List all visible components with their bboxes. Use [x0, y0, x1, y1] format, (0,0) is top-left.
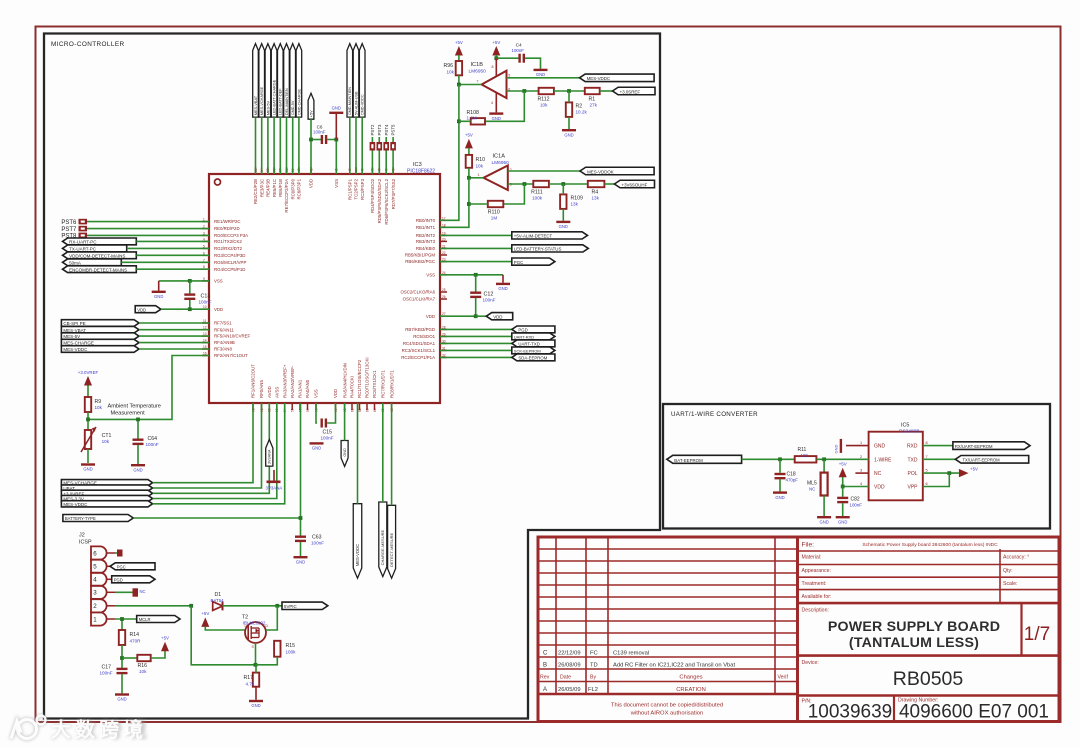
- net flag TX-UART-PC (left): [63, 245, 127, 252]
- svg-text:5: 5: [508, 73, 510, 77]
- wire TX-UART-PC to IC3: [127, 247, 209, 249]
- wire feedback down: [485, 91, 524, 121]
- supply bar 3V3ANA: [266, 470, 283, 491]
- svg-text:Changes: Changes: [679, 675, 702, 681]
- svg-text:RE1/WR/P2C: RE1/WR/P2C: [214, 219, 241, 224]
- svg-text:RB0/INT0: RB0/INT0: [416, 218, 436, 223]
- svg-text:PGD: PGD: [114, 578, 123, 583]
- wire PST5 to IC3: [392, 151, 394, 175]
- svg-text:IC1A: IC1A: [493, 154, 506, 160]
- net flag UBAT (lower left): [61, 485, 152, 491]
- svg-text:+3.0SREF: +3.0SREF: [620, 89, 641, 94]
- svg-text:RXD: RXD: [907, 444, 918, 450]
- IC5 pin labels: [860, 441, 928, 490]
- junction C18: [778, 457, 782, 461]
- wire MES-3.3V to IC3 pin: [153, 403, 277, 499]
- op-amp IC3 body (PIC18F8622): [209, 174, 440, 403]
- svg-text:VDD: VDD: [309, 179, 314, 188]
- net flag MES-VCHARGE (top, vertical): [259, 44, 265, 118]
- ground below C63: [294, 556, 308, 564]
- IC3 value label: [407, 169, 435, 175]
- net flag CHARGE-MESURE (long vertical): [379, 502, 387, 577]
- IC1B value label: [469, 69, 487, 75]
- ground at IC3 right VSS: [496, 275, 510, 291]
- junction C64: [136, 418, 140, 422]
- wire C4 to gnd: [525, 58, 541, 68]
- net flag 5V-ALIM-USB (top, vertical): [353, 44, 359, 118]
- wire C18 to gnd: [779, 479, 781, 491]
- label Ambient Temperature Measurement: [108, 404, 161, 417]
- jumper PST6: [79, 219, 88, 225]
- IC1B name label: [471, 62, 484, 68]
- wire R109 stem: [562, 184, 564, 194]
- svg-text:10k: 10k: [476, 164, 484, 169]
- wire C12 stem lower: [440, 298, 476, 316]
- R16 value label: [139, 669, 147, 674]
- svg-text:POWER SUPPLY BOARD: POWER SUPPLY BOARD: [828, 619, 1000, 635]
- net flag UART-RXD (right stack): [512, 333, 555, 340]
- wire C12 stem upper: [475, 275, 477, 292]
- ground below R109: [556, 221, 570, 229]
- svg-text:DS2480B: DS2480B: [899, 428, 920, 434]
- IC1B gnd stem: [491, 93, 496, 113]
- wire C82 stem: [842, 487, 844, 497]
- svg-text:R96: R96: [444, 63, 454, 69]
- svg-text:RC8/RX1/DT1: RC8/RX1/DT1: [389, 370, 394, 398]
- svg-text:GND: GND: [312, 446, 321, 451]
- svg-text:MES-VCHARGE: MES-VCHARGE: [260, 86, 264, 115]
- wire R110 left: [469, 203, 488, 205]
- junction VDD/C13: [188, 307, 192, 311]
- svg-text:10039639: 10039639: [808, 702, 893, 723]
- wire MES-VDDC to IC3: [139, 348, 209, 350]
- svg-text:RB2/INT2: RB2/INT2: [416, 233, 436, 238]
- resistor R108: [471, 118, 485, 124]
- net flag GND small (below IC3): [341, 441, 348, 467]
- R108 value label: [467, 115, 477, 120]
- resistor R2: [566, 102, 572, 117]
- net flag CMD-5V (top, vertical): [290, 44, 296, 118]
- R2 name label: [576, 104, 583, 110]
- svg-text:Appearance:: Appearance:: [802, 568, 831, 574]
- uart/1-wire converter box: [663, 404, 1050, 529]
- micro-controller box label: [51, 41, 125, 48]
- R108 name label: [467, 110, 480, 116]
- wire gate: [205, 626, 245, 630]
- wire IC5 RXD: [923, 445, 953, 447]
- svg-text:C139 removal: C139 removal: [613, 651, 649, 657]
- svg-text:RF0/AN5: RF0/AN5: [259, 380, 264, 398]
- svg-text:RD4/PSP4/SDO2: RD4/PSP4/SDO2: [370, 178, 375, 213]
- wire +5V to R10: [468, 148, 470, 155]
- svg-text:D: D: [266, 624, 269, 628]
- svg-text:ENCOMBR-DETECT-MAINS: ENCOMBR-DETECT-MAINS: [69, 267, 127, 272]
- svg-text:R14: R14: [130, 632, 140, 638]
- svg-text:VDD: VDD: [137, 307, 146, 312]
- R10 value label: [476, 164, 484, 169]
- svg-text:AVDD: AVDD: [267, 386, 272, 398]
- net flag MES-3.3V (lower left): [61, 495, 152, 501]
- svg-text:S: S: [252, 645, 255, 649]
- svg-text:RC5/SDO1: RC5/SDO1: [413, 334, 435, 339]
- ML5 name label: [807, 481, 817, 487]
- svg-text:BAT-EEPROM: BAT-EEPROM: [674, 458, 703, 463]
- C17 name label: [102, 665, 112, 671]
- wire RF2 to temperature node: [88, 356, 209, 420]
- svg-text:Schematic Power Supply board 3: Schematic Power Supply board 3842600 (ta…: [862, 542, 998, 548]
- wire IC5 VPP: [923, 473, 950, 486]
- svg-text:RC1/T1OSI/ECCP2: RC1/T1OSI/ECCP2: [357, 359, 362, 398]
- svg-text:MES-VDDC: MES-VDDC: [63, 502, 88, 507]
- T2 pin marks: [245, 624, 269, 649]
- svg-text:RD7/PSP7/SS2: RD7/PSP7/SS2: [391, 178, 396, 209]
- C63 name label: [312, 535, 322, 541]
- svg-text:VDD/COM-DETECT-MAINS: VDD/COM-DETECT-MAINS: [69, 253, 125, 258]
- svg-text:+5V: +5V: [970, 467, 978, 472]
- wire R111 to R4: [549, 183, 588, 185]
- wire R1 to flag: [600, 90, 613, 92]
- C82 value label: [850, 503, 863, 508]
- svg-text:100: 100: [801, 453, 809, 458]
- wire R16 left: [122, 657, 137, 659]
- svg-text:Verif: Verif: [778, 675, 789, 681]
- net flag 3V3ANA (vertical): [266, 440, 273, 467]
- svg-text:GND: GND: [343, 448, 347, 457]
- svg-text:SDA-EEPROM: SDA-EEPROM: [518, 356, 547, 361]
- svg-text:100nF: 100nF: [199, 300, 212, 305]
- revision table entries: [540, 651, 788, 694]
- svg-text:10.2k: 10.2k: [576, 110, 588, 115]
- R109 name label: [571, 196, 584, 202]
- svg-text:5VPIC: 5VPIC: [284, 604, 297, 609]
- net flag MES-VDDC (lower left): [61, 501, 152, 507]
- svg-text:3V3ANA: 3V3ANA: [268, 449, 272, 464]
- net flag SDA-EEPROM (right stack): [512, 354, 555, 361]
- net flag VDD/COM-DETECT-MAINS (left): [63, 252, 137, 259]
- svg-text:4: 4: [860, 482, 862, 486]
- R14 value label: [130, 639, 142, 644]
- svg-text:PIC18F8622: PIC18F8622: [407, 169, 435, 175]
- svg-text:NC: NC: [809, 487, 815, 492]
- wire BAT-EEPROM to R11: [742, 458, 795, 460]
- copy disclaimer: [611, 703, 723, 717]
- IC5 pin1 stub: [846, 445, 869, 447]
- jumper PST2: [370, 142, 376, 151]
- R16 name label: [138, 663, 148, 669]
- junction R110 left: [467, 202, 471, 206]
- svg-text:100nF: 100nF: [512, 48, 525, 53]
- svg-text:+5V: +5V: [839, 462, 847, 467]
- CT1 value label: [102, 439, 110, 444]
- svg-text:100nF: 100nF: [850, 503, 863, 508]
- svg-text:R15: R15: [286, 643, 296, 649]
- junction IC1A out: [467, 176, 471, 180]
- svg-text:RE7/ECCP2/P2A: RE7/ECCP2/P2A: [284, 179, 289, 213]
- label PST6: [61, 220, 77, 226]
- svg-text:+5V: +5V: [309, 110, 313, 117]
- net flag 50mA (left): [63, 259, 122, 266]
- wire C18 stem: [779, 459, 781, 473]
- svg-text:2: 2: [93, 603, 97, 610]
- R11 name label: [798, 447, 807, 453]
- resistor R14: [119, 630, 125, 645]
- R1 name label: [589, 97, 596, 103]
- wire R4 to flag: [604, 183, 614, 185]
- svg-text:Ambient Temperature: Ambient Temperature: [108, 404, 161, 410]
- svg-text:100nF: 100nF: [313, 130, 326, 135]
- svg-text:1: 1: [860, 441, 862, 445]
- R110 value label: [491, 216, 498, 221]
- net flag +3.0SREF (IC1B): [613, 87, 656, 95]
- wire vcc to C4: [496, 57, 518, 59]
- wire T2 drain: [266, 606, 277, 630]
- svg-text:RE0/RD/P2D: RE0/RD/P2D: [214, 226, 240, 231]
- ground below C18: [773, 491, 787, 499]
- svg-text:GND: GND: [838, 519, 847, 524]
- svg-text:GND: GND: [492, 116, 501, 121]
- svg-text:without AIROX authorisation: without AIROX authorisation: [630, 711, 704, 717]
- R109 value label: [571, 202, 579, 207]
- svg-text:8: 8: [926, 441, 928, 445]
- svg-text:RB7/KBI3/PGD: RB7/KBI3/PGD: [405, 327, 435, 332]
- junction ML5 top: [822, 457, 826, 461]
- svg-text:B: B: [543, 663, 547, 669]
- junction C82: [841, 485, 845, 489]
- junction IC1B out: [457, 83, 461, 87]
- svg-text:DETECT-MESURE: DETECT-MESURE: [389, 532, 394, 567]
- supply +5V at R16: [161, 636, 169, 652]
- net flag DETECT-MESURE (long vertical): [388, 505, 396, 578]
- svg-text:VSS: VSS: [334, 179, 339, 188]
- wire C82 to gnd: [842, 503, 844, 516]
- wire R11 to IC5 pin2: [816, 458, 868, 460]
- svg-text:MES-5V: MES-5V: [266, 100, 270, 115]
- svg-text:61: 61: [350, 408, 354, 412]
- svg-text:10k: 10k: [540, 103, 548, 108]
- wire CMD-MAINTIEN to IC3: [349, 117, 351, 174]
- wire PST3 to IC3: [378, 151, 380, 175]
- ground at C6 (inverted): [329, 106, 343, 140]
- junction IC1B vcc: [494, 56, 498, 60]
- wire ML5 to gnd: [823, 496, 825, 517]
- ground below C17: [115, 693, 129, 701]
- svg-text:10k: 10k: [447, 70, 455, 75]
- wire MES-VBAT to IC3: [139, 329, 209, 331]
- svg-text:+5V: +5V: [161, 636, 169, 641]
- svg-text:64: 64: [373, 408, 377, 412]
- wire C63 to ground: [300, 542, 302, 556]
- supply +5V at T2 gate: [201, 611, 209, 627]
- svg-text:AVSS: AVSS: [275, 387, 280, 398]
- wire PST6 to IC3: [87, 221, 209, 223]
- label PST8: [61, 234, 77, 240]
- svg-text:+5V: +5V: [465, 133, 473, 138]
- svg-text:RF6/AN11: RF6/AN11: [214, 327, 235, 332]
- svg-text:CMD-5V: CMD-5V: [291, 100, 295, 115]
- junction C13 top: [188, 279, 192, 283]
- junction T2 drain rail: [275, 604, 279, 608]
- svg-text:PST5: PST5: [391, 124, 396, 136]
- svg-text:GND: GND: [251, 703, 260, 708]
- wire IC1A plus input: [508, 170, 580, 172]
- net flag MES-VDDC (op-amp IC1B): [580, 74, 655, 82]
- wire MCLR to R14 junction: [121, 619, 123, 630]
- R9 name label: [95, 399, 102, 405]
- svg-text:RC0/P3P0: RC0/P3P0: [290, 178, 295, 199]
- svg-text:RC3/SCK1/SCL1: RC3/SCK1/SCL1: [402, 348, 436, 353]
- resistor R16: [137, 655, 150, 661]
- svg-text:FC: FC: [590, 651, 598, 657]
- svg-text:4.7k: 4.7k: [246, 682, 255, 687]
- jumper PST8: [79, 233, 88, 239]
- net flag TX-UART-EEPROM: [955, 456, 1028, 464]
- svg-text:RA0/AN0: RA0/AN0: [305, 379, 310, 398]
- capacitor C13: [184, 293, 195, 300]
- svg-text:20: 20: [442, 237, 446, 241]
- svg-text:TX/UART-EEPROM: TX/UART-EEPROM: [963, 458, 1001, 463]
- C6 value label: [313, 130, 326, 135]
- svg-text:VDD: VDD: [874, 485, 885, 491]
- svg-text:OSC2/CLKO/RA6: OSC2/CLKO/RA6: [400, 290, 435, 295]
- resistor R111: [533, 181, 549, 187]
- wire C13 lower stem: [189, 300, 191, 309]
- svg-text:GND: GND: [296, 559, 305, 564]
- wire D1 to 5VPIC flag: [223, 605, 283, 607]
- supply +5V at IC5 VDD: [839, 462, 847, 478]
- svg-text:RB0505: RB0505: [893, 668, 964, 690]
- IC1A name label: [493, 154, 506, 160]
- ground below R2: [562, 129, 576, 137]
- svg-text:+3V6SOUHF: +3V6SOUHF: [622, 182, 648, 187]
- wire MES-VDDC to IC3 pin: [153, 403, 285, 504]
- wire LED-BATT-CHARGE to IC3: [273, 117, 275, 174]
- junction VSS right: [474, 273, 478, 277]
- wire DEL-MAINTIEN to IC3: [286, 117, 288, 174]
- capacitor C6: [321, 135, 328, 144]
- label PST7: [61, 227, 77, 233]
- wire T2 source: [255, 643, 257, 665]
- svg-text:+5V: +5V: [492, 40, 500, 45]
- svg-text:RC6/TX1/CK1: RC6/TX1/CK1: [372, 370, 377, 398]
- C12 name label: [484, 292, 494, 298]
- svg-text:RF3/AN8: RF3/AN8: [214, 347, 232, 352]
- wire VDD/COM-DETECT-MAINS to IC3: [136, 254, 209, 256]
- supply +5V right (POL): [959, 467, 978, 478]
- wire IC1A minus to R111: [508, 183, 534, 185]
- svg-text:Accuracy: °: Accuracy: °: [1003, 555, 1029, 561]
- svg-text:RA2/AN2/VREF-: RA2/AN2/VREF-: [290, 365, 295, 398]
- junction R2 top: [567, 89, 571, 93]
- svg-text:Add RC Filter on IC21,IC22 and: Add RC Filter on IC21,IC22 and Transil o…: [613, 663, 736, 669]
- svg-text:6: 6: [93, 550, 97, 557]
- svg-text:8: 8: [492, 65, 494, 69]
- C15 name label: [323, 430, 333, 436]
- R10 name label: [476, 157, 486, 163]
- svg-text:GND: GND: [834, 445, 839, 454]
- net flag MES-VBAT (top, vertical): [253, 44, 259, 118]
- C4 name label: [516, 42, 522, 48]
- wire R109 to gnd: [562, 209, 564, 221]
- svg-text:10k: 10k: [102, 439, 110, 444]
- svg-text:RB4/KBI0: RB4/KBI0: [416, 246, 436, 251]
- svg-text:100nF: 100nF: [100, 671, 113, 676]
- R15 value label: [286, 650, 297, 655]
- svg-text:RC0/T1OSO/T13CKI: RC0/T1OSO/T13CKI: [365, 357, 370, 398]
- net flag UART-TXD (right stack): [512, 340, 555, 347]
- junction C6 right: [334, 138, 338, 142]
- svg-text:55: 55: [291, 408, 295, 412]
- wire VDD flag to IC3: [161, 308, 209, 310]
- wire PST8 to IC3: [87, 234, 209, 236]
- wire MES-VBAT to IC3: [255, 117, 257, 174]
- svg-text:NC: NC: [874, 471, 882, 477]
- wire left loop down: [191, 606, 258, 665]
- svg-text:Measurement: Measurement: [111, 411, 146, 417]
- svg-text:GND: GND: [819, 519, 828, 524]
- net flag LED-BATT-CHARGE (top, vertical): [271, 44, 277, 118]
- resistor R15: [274, 641, 280, 657]
- resistor R110: [488, 201, 504, 207]
- C12 value label: [483, 298, 496, 303]
- ground below C15: [310, 442, 324, 450]
- net flag MES-CHARGE (left): [61, 339, 139, 346]
- jumper PST7: [79, 226, 88, 232]
- svg-text:ICSP: ICSP: [79, 540, 92, 546]
- svg-text:Treatment:: Treatment:: [802, 581, 827, 587]
- wire R14 to R16/C17: [121, 645, 123, 668]
- svg-text:22: 22: [442, 251, 446, 255]
- D1 name label: [215, 592, 222, 598]
- wire MES-5V to IC3: [139, 335, 209, 337]
- transistor T2 (IRLML6302): [245, 622, 266, 643]
- svg-text:VDD: VDD: [333, 389, 338, 398]
- svg-text:UART/1-WIRE CONVERTER: UART/1-WIRE CONVERTER: [671, 411, 758, 418]
- R110 name label: [488, 210, 500, 216]
- svg-text:100nF: 100nF: [321, 436, 334, 441]
- svg-text:6: 6: [926, 482, 928, 486]
- thermistor CT1: [81, 427, 96, 452]
- C13 value label: [199, 300, 212, 305]
- svg-text:MES-5V: MES-5V: [63, 334, 80, 339]
- resistor R1: [585, 88, 600, 94]
- title block grid: [538, 537, 1059, 722]
- svg-text:GND: GND: [874, 444, 886, 450]
- junction minus node: [522, 89, 526, 93]
- wire MES-5V to IC3: [267, 117, 269, 174]
- R4 value label: [592, 196, 600, 201]
- jumper at J2 pin6: [117, 550, 123, 557]
- wire rail x469 down: [440, 178, 469, 228]
- wire IC1A feedback down: [503, 184, 524, 204]
- C82 name label: [851, 497, 860, 503]
- wire PST4 upper stub: [385, 137, 387, 142]
- svg-text:VDD: VDD: [493, 315, 502, 320]
- svg-text:J2: J2: [79, 533, 85, 539]
- junction source/R17: [254, 663, 258, 667]
- svg-text:100nF: 100nF: [146, 442, 159, 447]
- svg-text:RF5/AN10/CVREF: RF5/AN10/CVREF: [214, 334, 251, 339]
- svg-text:TX-UART-PC: TX-UART-PC: [69, 247, 97, 252]
- net flag +5V short (top): [308, 93, 314, 119]
- svg-text:CHARGE-MESURE: CHARGE-MESURE: [380, 530, 385, 566]
- svg-text:GND: GND: [83, 467, 92, 472]
- svg-text:CREATION: CREATION: [676, 687, 706, 693]
- svg-text:RC7/RX1/DT1: RC7/RX1/DT1: [381, 370, 386, 398]
- R96 name label: [444, 63, 454, 69]
- svg-text:RG1/TX2/CK2: RG1/TX2/CK2: [214, 239, 242, 244]
- wire PST4 to IC3: [385, 151, 387, 175]
- svg-text:RC6/P3P1: RC6/P3P1: [297, 178, 302, 199]
